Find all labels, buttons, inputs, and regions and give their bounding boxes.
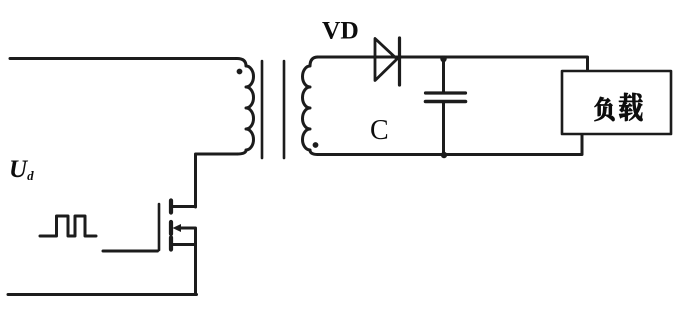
MOSFET V channel segment source bbox=[169, 238, 173, 250]
label 负 (load char 1) bbox=[595, 97, 615, 121]
transformer core bbox=[262, 61, 284, 158]
MOSFET V gate bar bbox=[158, 204, 161, 250]
polarity dot secondary bbox=[313, 142, 319, 148]
diode VD triangle bbox=[375, 39, 397, 81]
MOSFET V drain lead bbox=[173, 205, 196, 208]
MOSFET V body arrow bbox=[173, 224, 182, 232]
transformer T1 primary winding bbox=[237, 59, 254, 155]
capacitor C bottom lead bbox=[442, 103, 445, 155]
transformer T1 secondary winding bbox=[303, 57, 318, 155]
capacitor C bottom plate bbox=[426, 100, 466, 104]
MOSFET V channel segment drain bbox=[169, 201, 173, 213]
label 载 (load char 2) bbox=[619, 93, 643, 121]
wire secondary top to diode and load bbox=[318, 57, 588, 71]
capacitor C top plate bbox=[426, 91, 466, 94]
wire secondary bottom rail to load bbox=[318, 135, 582, 155]
MOSFET V source lead bbox=[173, 245, 196, 295]
wire top-left from Ud+ to transformer primary bbox=[10, 57, 237, 60]
wire bottom-left from Ud- to MOSFET source bbox=[8, 293, 197, 296]
svg-text:Ud: Ud bbox=[9, 156, 34, 183]
svg-text:C: C bbox=[370, 115, 389, 146]
junction node top (cap to top rail) bbox=[440, 56, 446, 62]
gate drive pulse waveform bbox=[40, 216, 96, 236]
diode VD cathode bar bbox=[398, 38, 401, 85]
wire gate lead bbox=[103, 250, 158, 253]
wire primary bottom to MOSFET drain bbox=[196, 154, 238, 207]
load box bbox=[562, 71, 671, 134]
svg-text:VD: VD bbox=[322, 16, 359, 45]
junction node bottom (cap to bottom rail) bbox=[441, 152, 447, 158]
MOSFET V body lead bbox=[180, 228, 196, 245]
polarity dot primary bbox=[237, 69, 243, 75]
MOSFET V channel segment body bbox=[169, 222, 173, 234]
capacitor C top lead bbox=[442, 57, 445, 92]
